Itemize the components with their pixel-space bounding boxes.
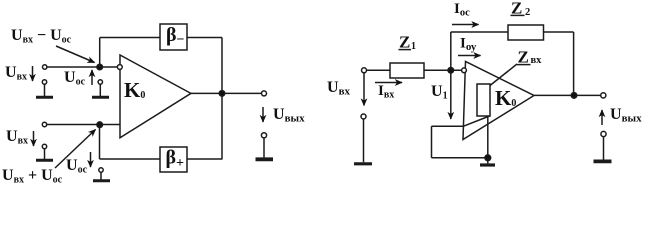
label Uвх + Uос [2,167,63,186]
label Iвх [378,83,394,101]
node B (junction input2) [97,122,103,128]
wire loop left vertical [431,126,433,158]
ground (Uос upper) [99,84,101,96]
wire Z2 to output branch [544,31,574,33]
arrow up (Uвых right) [601,110,603,125]
output node (right) [571,93,577,99]
label Uос (upper) [64,69,86,88]
label Uвых (left) [273,106,305,125]
impedance Zвх inside op-amp [477,84,490,116]
label Uос (lower) [66,157,88,176]
arrow down (Uвх upper) [32,66,34,81]
op-amp input terminal circle (upper) [117,65,122,70]
wire input2 to op-amp [47,124,120,126]
wire feedback top left [100,37,160,39]
wire feedback bottom left [100,158,161,160]
label Iоу [460,36,477,54]
ground (input2) [44,149,46,159]
wire β+ to output branch [187,158,222,160]
terminal circle input1 lower [42,80,46,84]
output lower terminal circle (right) [601,131,606,136]
ground (right op-amp) [487,158,489,164]
wire node C up (feedback) [450,32,452,70]
wire input to Z1 [367,69,391,71]
wire feedback right vertical [221,38,223,160]
ground (Uос lower) [100,172,102,179]
label U1 [431,83,448,102]
ground (output left) [263,138,265,157]
label Iос [454,1,470,19]
terminal circle Uос lower source [99,168,103,172]
input terminal circle (right) [362,68,367,73]
output lower terminal circle (left) [261,133,266,138]
label Z2 [511,0,530,18]
svg-text:1: 1 [411,41,416,52]
terminal circle Uос upper source [98,80,102,84]
wire β− to output branch [187,37,222,39]
wire lower input diagonal to Zвх [464,116,490,126]
label Z1 [399,33,416,52]
wire lower input loop horizontal [432,125,464,127]
label Uвых (right) [610,106,642,125]
node A (junction input1) [97,64,103,70]
arrow Iос [452,24,479,26]
arrow Iвх [375,82,402,84]
svg-text:2: 2 [525,7,530,18]
block β− [160,24,187,50]
impedance Z2 [508,25,544,40]
svg-text:вх: вх [531,55,543,66]
output wire (right diagram) [534,94,601,96]
output node (left) [219,91,225,97]
arrow down (Uос lower) [90,152,92,167]
label Zвх [518,48,543,67]
wire Zвх bottom down to ground [487,116,489,158]
arrow down (Uвх lower) [33,131,35,146]
pointer arrow from label Uвх+Uос to node B [55,130,96,169]
arrow down between input terminals [363,73,365,106]
terminal circle input2 upper [42,122,46,126]
arrow up (Uос upper) [91,70,93,85]
terminal circle input2 lower [42,144,46,148]
pointer arrow from label to node A [56,46,95,63]
pointer line from label Zвх to rect [490,64,517,86]
label Uвх (right) [327,79,351,98]
op-amp K0 (right) [463,62,534,140]
wire feedback right vertical (right diagram) [573,32,575,95]
output terminal circle (right) [601,93,606,98]
label Uвх (lower input) [6,128,28,147]
arrow U1 down [450,73,452,119]
svg-text:Z: Z [518,48,529,67]
op-amp K0 (left) [120,55,191,138]
lower input terminal circle (right) [361,114,366,119]
wire node A up to feedback [99,38,101,68]
output terminal circle (left) [262,91,267,96]
wire Z1 to node C [424,69,462,71]
ground (input1) [44,84,46,96]
wire input1 to op-amp [47,66,118,68]
output wire (left diagram) [191,92,262,94]
svg-text:Z: Z [399,33,410,52]
wire node B down to feedback [99,125,101,159]
block β+ [160,147,187,172]
arrow Iоу [458,55,481,57]
node C (inverting input junction) [448,68,454,74]
op-amp input terminal circle (right) [462,68,467,73]
impedance Z1 [390,63,424,78]
ground node (right op-amp) [485,155,491,161]
label Uвх (upper input) with down arrow [5,64,27,83]
ground (output right) [603,137,605,160]
label Uвх − Uос (differential input) [11,27,72,46]
wire loop bottom horizontal [432,157,488,159]
terminal circle input1 upper [43,65,47,69]
ground (input right) [363,119,365,162]
wire feedback to Z2 [451,31,508,33]
arrow down (Uвых left) [262,107,264,122]
